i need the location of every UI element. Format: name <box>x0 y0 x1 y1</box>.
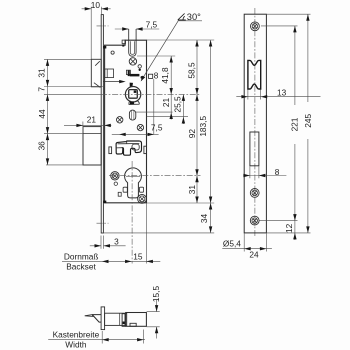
svg-text:41,8: 41,8 <box>160 67 170 84</box>
deadbolt internal line <box>83 133 101 135</box>
svg-text:183,5: 183,5 <box>198 116 208 137</box>
spindle capsule <box>129 110 135 120</box>
ext case bottom right <box>147 202 215 204</box>
svg-text:7,5: 7,5 <box>151 123 163 133</box>
arrows dim 24 <box>244 247 251 250</box>
nut top lever (filled) <box>130 83 133 88</box>
cylinder screw U4 <box>111 172 119 180</box>
faceplate outline <box>244 14 266 233</box>
latch tail plate <box>105 69 114 78</box>
follower axis <box>101 93 201 95</box>
dim 245 line <box>307 14 309 233</box>
ext plate top right <box>267 13 311 15</box>
svg-text:10: 10 <box>91 0 101 10</box>
svg-text:245: 245 <box>303 113 313 127</box>
arrows dim 13 <box>241 95 248 98</box>
screw boss U2 <box>117 117 123 123</box>
step notch square <box>122 40 125 43</box>
screw hole bottom <box>250 216 259 225</box>
ext latch top <box>44 58 91 60</box>
follower square corner fill <box>134 91 137 93</box>
bolt lever mechanism <box>116 141 141 155</box>
inner divider <box>119 313 121 325</box>
ext screw bottom right <box>260 220 298 222</box>
ext latch bottom <box>44 86 105 88</box>
dim 10 line <box>82 8 111 10</box>
arrows dim 44 <box>46 127 49 134</box>
svg-text:8: 8 <box>154 71 159 81</box>
fixing screw U5 <box>138 195 147 204</box>
square symbol <box>149 74 153 78</box>
dim 221 line <box>294 26 296 221</box>
latch screw U1 <box>129 58 136 65</box>
ext case right down <box>145 203 147 263</box>
arrow leader 30deg <box>141 76 146 82</box>
nut bottom tab <box>129 101 139 105</box>
arrow dim 15 <box>146 260 153 263</box>
svg-text:36: 36 <box>37 141 47 151</box>
faceplate (edge-on) <box>101 15 103 233</box>
arrows kastenbreite <box>102 338 109 341</box>
screw hole top <box>251 22 260 31</box>
dim 8 exts <box>250 166 259 178</box>
top screw axis <box>97 25 109 27</box>
latch bevel mark bottom <box>94 83 100 88</box>
narrow block <box>122 314 125 327</box>
svg-text:Dornmaß: Dornmaß <box>64 251 99 261</box>
faceplate cross-section <box>101 307 105 330</box>
ext deadbolt top <box>44 133 83 135</box>
svg-text:7: 7 <box>37 87 47 92</box>
pointer arrow to nut <box>103 81 119 83</box>
ext deadbolt left <box>82 122 84 134</box>
cylinder housing block <box>126 313 147 327</box>
latch guide slot (U shape) <box>129 29 136 56</box>
svg-text:34: 34 <box>199 214 209 224</box>
svg-text:24: 24 <box>249 250 259 260</box>
stud right <box>139 187 143 192</box>
dim 15,5 exts <box>147 312 160 327</box>
svg-text:Width: Width <box>65 339 87 349</box>
nut block dark blob <box>123 322 125 325</box>
arrows dim 21 left <box>76 124 83 127</box>
arrow dim 12 <box>293 233 296 240</box>
bottom screw axis <box>97 222 109 224</box>
dim 13 exts <box>248 90 261 100</box>
angle symbol <box>178 13 186 20</box>
spring end box <box>126 70 130 74</box>
arrows dim 31 left <box>46 59 49 66</box>
arrows dim 41,8 <box>170 56 173 63</box>
svg-text:21: 21 <box>87 114 97 124</box>
spring vertical bar (filled) <box>128 71 130 77</box>
arrows dim 58,5 <box>195 40 198 47</box>
arrows dim 7,5 mid <box>119 133 126 136</box>
stud left <box>123 187 127 192</box>
arrows dim 36 <box>46 134 49 141</box>
ext deadbolt bottom <box>46 164 83 166</box>
dim 24 exts <box>244 233 266 251</box>
cylinder vertical axis <box>131 161 133 264</box>
ext plate bottom front <box>103 232 214 234</box>
arrow dim 21 right <box>170 113 173 120</box>
small square stud <box>118 192 121 196</box>
follower axis left part <box>44 93 101 95</box>
arrows dim 245 <box>306 14 309 21</box>
arrows dim 10 <box>85 7 92 10</box>
latch tip (top view) <box>85 315 93 317</box>
right dim chain line B <box>210 40 212 233</box>
svg-text:3: 3 <box>114 237 119 247</box>
ext case top right <box>147 39 215 41</box>
svg-text:12: 12 <box>284 223 294 233</box>
svg-text:92: 92 <box>187 129 197 139</box>
cylinder notch <box>130 323 136 326</box>
ext line latch tip vertical <box>90 7 92 60</box>
latch opening <box>248 60 261 89</box>
arrows dim 34 <box>209 203 212 210</box>
follower square 8mm <box>129 90 138 99</box>
latch bolt protrusion <box>91 59 101 87</box>
ext plate bottom right <box>267 232 311 234</box>
svg-text:15: 15 <box>133 251 143 261</box>
ext screw top right <box>261 25 298 27</box>
leader 30deg <box>141 21 202 81</box>
dim 13 line <box>236 96 320 98</box>
case band <box>105 313 127 325</box>
arrows dim 3 <box>95 244 102 247</box>
arrows dim 183,5 <box>209 40 212 47</box>
svg-text:7,5: 7,5 <box>146 20 158 30</box>
kastenbreite dim line <box>48 339 145 341</box>
arrows dim 92 <box>195 94 198 100</box>
arrows dornmass <box>102 260 109 263</box>
arrows dim 8 <box>243 174 250 177</box>
spring anchor dot <box>139 69 141 71</box>
dim 24 line <box>222 248 272 250</box>
svg-text:30°: 30° <box>187 12 201 22</box>
arrows dim 7,5 top <box>122 27 129 30</box>
svg-text:21: 21 <box>161 98 171 108</box>
latch bevel mark top <box>95 61 100 65</box>
svg-text:31: 31 <box>187 185 197 195</box>
svg-text:221: 221 <box>290 117 300 131</box>
dim 12 line <box>294 221 296 240</box>
nut bottom dark blob <box>130 102 134 105</box>
small rivet circle <box>111 51 114 54</box>
lock case outline <box>105 40 147 203</box>
svg-text:13: 13 <box>277 88 287 98</box>
svg-text:Backset: Backset <box>66 261 96 271</box>
svg-text:8: 8 <box>275 167 280 177</box>
kastenbreite exts <box>102 330 143 344</box>
spring horizontal bar (filled) <box>130 74 140 77</box>
ext capsule top <box>136 111 173 113</box>
screw hole middle <box>250 189 259 198</box>
ext faceplate down left <box>100 236 102 249</box>
arrows dim 25,5 <box>182 94 185 100</box>
guide slot right <box>144 146 147 153</box>
ext 25,5 level <box>147 116 188 118</box>
left dim chain line <box>47 59 49 164</box>
ext latch slot bottom <box>137 55 175 57</box>
ext vertical x154 <box>153 79 155 134</box>
right dim chain line C <box>170 56 172 120</box>
cylinder profile hole <box>125 168 142 198</box>
dim 7,5 mid line <box>112 133 159 135</box>
cylinder slot opening <box>250 132 259 166</box>
dim 21 left line <box>64 124 111 126</box>
ext faceplate down right <box>103 236 105 249</box>
corner pin bottom-left (filled) <box>103 201 106 204</box>
ext line faceplate top <box>100 7 102 15</box>
deadbolt head <box>83 127 101 165</box>
svg-text:44: 44 <box>37 109 47 119</box>
svg-text:15,5: 15,5 <box>151 286 161 303</box>
guide slot left <box>109 147 112 154</box>
spring anchor circle <box>138 65 141 68</box>
svg-text:31: 31 <box>36 68 46 78</box>
dim 8 line <box>243 175 286 177</box>
svg-text:Kastenbreite: Kastenbreite <box>53 330 100 340</box>
dim 15,5 line <box>156 300 158 339</box>
follower nut circle <box>125 87 140 102</box>
spring pivot dot <box>141 76 144 79</box>
small pin notch dark <box>122 44 124 46</box>
right dim chain line D <box>182 94 184 124</box>
faceplate view axis <box>254 8 256 237</box>
small rivet circle 2 <box>114 182 117 185</box>
svg-text:58,5: 58,5 <box>187 62 197 79</box>
svg-text:25,5: 25,5 <box>173 96 183 113</box>
arrows dim 15,5 <box>155 305 158 312</box>
dornmass dim line <box>62 260 160 262</box>
screw boss U3 <box>137 124 143 130</box>
svg-text:Ø5,4: Ø5,4 <box>223 238 241 248</box>
corner pin top-left (filled) <box>103 46 106 49</box>
dim 3 tails <box>90 245 126 247</box>
arrow dim 7 left <box>46 94 49 100</box>
latch guide inner wall <box>130 41 134 54</box>
arrows dim 31 right <box>195 176 198 183</box>
cylinder horizontal axis <box>109 175 201 177</box>
right dim chain line A <box>196 40 198 203</box>
arrows dim 221 <box>293 26 296 33</box>
dim 7,5 top line <box>115 28 159 30</box>
